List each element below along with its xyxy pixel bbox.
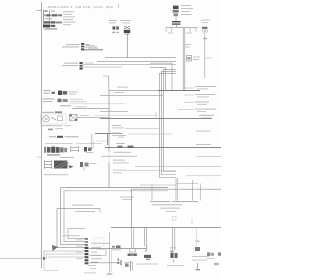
box entry wire 1	[151, 185, 153, 201]
wire run mid joins connector	[57, 247, 85, 249]
bottom sensor B3	[192, 241, 209, 271]
connector C140	[70, 114, 78, 120]
wire corner net C	[150, 63, 172, 90]
faint net line	[70, 103, 125, 105]
wire net B	[97, 61, 176, 63]
wire pin3 C210	[84, 49, 103, 51]
heavy net to box	[95, 134, 108, 145]
bottom sensor B2	[125, 248, 141, 271]
bus corner 2	[164, 70, 177, 172]
wire X1 right 3	[89, 262, 117, 264]
bottom left corners	[0, 251, 85, 258]
connector C150	[84, 147, 93, 153]
text row 2	[110, 131, 210, 136]
sensor B9 labels	[201, 20, 210, 21]
label row	[44, 174, 68, 175]
inner box left	[68, 229, 85, 239]
connector C130	[58, 91, 78, 95]
wire trunk bottom	[109, 232, 111, 274]
harness drop left	[61, 188, 85, 245]
main harness run 1	[66, 187, 168, 189]
splice drop 5	[195, 28, 197, 32]
drop from run mid	[56, 208, 58, 247]
motor M2	[41, 114, 67, 124]
motor M2 title	[41, 112, 54, 113]
sensor B9	[202, 27, 208, 39]
node label text mid-left	[66, 44, 80, 45]
main harness run 2	[70, 190, 168, 192]
stub in box	[191, 218, 193, 224]
box exit pair 3	[131, 227, 133, 248]
wire B9 down	[204, 33, 206, 78]
box exit pair 1	[143, 227, 145, 246]
junction dot	[43, 257, 45, 259]
wire K1 stem	[175, 16, 177, 21]
stub end	[99, 208, 101, 213]
wire heavy net H	[158, 89, 200, 91]
heater control head A/C	[44, 147, 74, 158]
component MAIN label	[44, 90, 51, 91]
wire pin2 C210	[84, 46, 97, 48]
terminal T1	[70, 146, 79, 152]
terminal strip X1	[85, 238, 89, 264]
bottom mirror switch S5	[207, 252, 222, 265]
X1 pin labels	[88, 243, 102, 269]
right margin pin rows	[178, 86, 216, 118]
bus corner 3	[161, 72, 176, 175]
label under motor	[41, 125, 63, 126]
vertical continue	[108, 90, 110, 151]
wire X1 up branch	[100, 242, 110, 244]
bus wire splice S1	[166, 27, 198, 29]
diode D3 labels	[183, 44, 191, 45]
hatch wedge	[52, 245, 58, 251]
relay K1 labels	[181, 5, 191, 6]
wire main feed pair	[182, 28, 184, 90]
lamp E5	[124, 26, 130, 35]
splice drop 4	[189, 28, 191, 32]
box entry pair 2	[175, 178, 177, 201]
wire to node	[72, 108, 109, 110]
wire node cross	[100, 111, 128, 113]
fuse F4	[187, 56, 192, 62]
frame tick 2	[37, 156, 42, 158]
wire C140 out	[77, 116, 109, 118]
wire run mid	[57, 207, 100, 209]
connector view box	[94, 238, 104, 246]
bottom sensor B1	[112, 245, 121, 250]
stub below	[44, 258, 58, 270]
wire X1 right 1	[89, 248, 146, 250]
box entry wire 4	[200, 184, 202, 201]
wire stub y141	[96, 140, 109, 142]
bottom actuator M3	[142, 246, 158, 264]
harness drop left 2	[64, 191, 85, 242]
faint wires above heavy bus	[95, 114, 158, 116]
component label rows	[43, 98, 88, 102]
connector C2 bars	[172, 21, 181, 22]
wire upper runs near box	[140, 184, 177, 186]
wire row 3	[135, 165, 221, 167]
connector C210	[81, 43, 84, 50]
blower label	[60, 105, 71, 106]
title end tick	[118, 4, 120, 9]
frame tick	[37, 10, 42, 12]
heavy bus 2	[105, 147, 221, 149]
splice drop 2	[171, 28, 173, 32]
node label text C220	[64, 63, 78, 64]
blower resistor block	[44, 160, 74, 169]
wire B9 tick	[205, 57, 212, 59]
junction box J/B outline	[111, 189, 221, 227]
relay K1	[173, 6, 179, 17]
pin labels C100	[63, 11, 76, 25]
X1 header text	[62, 235, 80, 236]
faint row	[45, 142, 73, 145]
wire net A	[105, 57, 176, 59]
wire row under bus	[101, 155, 137, 157]
wire branch left 2	[100, 94, 163, 96]
resistor R20 labels	[109, 20, 117, 21]
inline connector on bus	[118, 146, 123, 148]
J/B label block	[150, 201, 198, 212]
connector C160	[80, 162, 97, 167]
box entry wire 3	[192, 180, 194, 201]
inline connector bottom	[118, 259, 120, 261]
X1 left pin text	[76, 238, 83, 241]
heavy bus B+	[100, 117, 212, 119]
connector table C100	[43, 10, 62, 30]
wire X1 right 2	[89, 249, 106, 256]
connector C220	[80, 62, 83, 70]
wire T1 up	[91, 134, 93, 149]
wire branch left	[103, 76, 163, 90]
splice drop 1	[165, 28, 167, 32]
ground G1 cluster	[48, 128, 63, 130]
wire E5 down	[126, 34, 128, 58]
border frame line	[41, 2, 43, 268]
svg-text:M: M	[45, 117, 48, 121]
wire C220-2	[83, 66, 122, 68]
footer small text	[49, 136, 56, 137]
wire pin1 C210	[84, 43, 89, 45]
resistor R20	[113, 26, 120, 33]
box exit pair 2	[171, 227, 173, 250]
left stub wire bottom	[110, 248, 112, 250]
svg-text:-WRG3-DWG 3, AIR HTR, HVAC, MI: -WRG3-DWG 3, AIR HTR, HVAC, MIR	[47, 5, 114, 9]
mid right rows: text row 1	[112, 125, 160, 128]
splice drop 3	[176, 25, 178, 28]
box exit 4	[196, 227, 198, 246]
label near run	[120, 197, 134, 198]
X1 footer text	[84, 271, 96, 274]
bottom actuator M4	[167, 247, 184, 266]
wire C220-1	[83, 64, 176, 66]
bracket mark	[173, 217, 177, 221]
wire C160 down	[83, 167, 85, 171]
bus corner 4	[159, 74, 176, 178]
bus corner 1	[150, 68, 166, 90]
